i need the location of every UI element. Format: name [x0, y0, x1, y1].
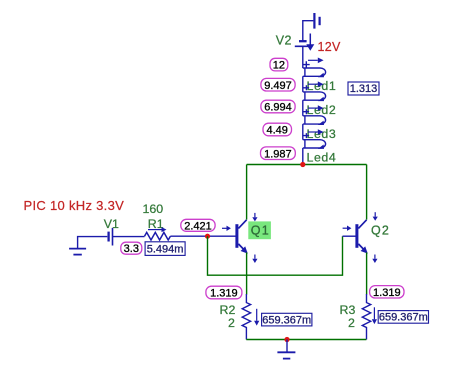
- ground top (rotated, at V2 plus terminal): [303, 13, 320, 41]
- svg-text:659.367m: 659.367m: [379, 312, 428, 324]
- svg-text:12: 12: [273, 60, 285, 72]
- R2 current arrow: [254, 309, 259, 326]
- voltage pin 9.497: [261, 78, 295, 91]
- svg-text:1.987: 1.987: [264, 148, 292, 160]
- voltage pin 1.987: [261, 147, 296, 160]
- svg-text:3.3: 3.3: [124, 243, 139, 255]
- svg-text:5.494m: 5.494m: [147, 244, 184, 256]
- Q2 collector arrow: [373, 212, 378, 221]
- svg-text:Led3: Led3: [307, 127, 337, 141]
- voltage pin 3.3: [121, 242, 142, 255]
- voltage pin 12: [270, 58, 288, 71]
- current box 1.313: [348, 82, 379, 95]
- svg-text:2: 2: [348, 316, 355, 330]
- svg-text:160: 160: [143, 202, 164, 216]
- svg-text:R2: R2: [220, 303, 236, 317]
- Q1 base current arrow: [222, 226, 231, 231]
- Q2 emitter arrow: [372, 255, 377, 264]
- node ground junction: [284, 337, 289, 342]
- Q1 label (highlighted): [248, 221, 271, 239]
- resistor R2: [220, 294, 251, 340]
- resistor R1: [143, 202, 171, 240]
- transistor Q2: [343, 220, 391, 254]
- svg-text:Led1: Led1: [307, 79, 337, 93]
- LED Led1: [303, 58, 336, 94]
- wire rail to Q2 collector: [366, 165, 368, 220]
- V2 voltage arrow: [306, 34, 314, 51]
- wire Q1 emitter to R2: [246, 252, 248, 294]
- node base Q1: [205, 234, 210, 239]
- wire base routing Q1 to Q2: [208, 236, 343, 275]
- svg-text:1.319: 1.319: [210, 288, 238, 300]
- wire R1 to Q1 base: [170, 235, 236, 237]
- svg-text:6.994: 6.994: [264, 102, 292, 114]
- wire Q2 emitter to R3: [366, 252, 368, 294]
- ground left (V1): [69, 237, 107, 255]
- svg-text:V2: V2: [276, 34, 292, 48]
- svg-text:Q2: Q2: [371, 224, 390, 238]
- wire V1 to R1: [113, 236, 145, 238]
- svg-text:659.367m: 659.367m: [262, 314, 311, 326]
- node junction LED chain / rail: [300, 162, 305, 167]
- svg-text:2.421: 2.421: [184, 220, 212, 232]
- LED Led2: [303, 81, 336, 117]
- voltage pin 1.319 right: [370, 286, 404, 299]
- battery V1: [104, 217, 119, 246]
- svg-text:2: 2: [228, 316, 235, 330]
- ground bottom: [277, 340, 295, 359]
- R1 current arrow: [148, 227, 167, 232]
- svg-text:9.497: 9.497: [264, 80, 292, 92]
- voltage pin 4.49: [263, 123, 292, 136]
- svg-text:R3: R3: [340, 303, 356, 317]
- voltage pin 2.421: [181, 219, 215, 232]
- R3 current arrow: [372, 307, 377, 324]
- LED Led3: [303, 105, 336, 141]
- svg-text:Q1: Q1: [251, 224, 270, 238]
- svg-text:1.313: 1.313: [350, 83, 378, 95]
- voltage pin 1.319 left: [206, 286, 242, 299]
- Q2 base current arrow: [343, 226, 352, 231]
- current box 659.367m left: [262, 313, 312, 326]
- svg-text:1.319: 1.319: [373, 287, 401, 299]
- Q1 emitter arrow: [252, 255, 257, 264]
- battery V2: [276, 34, 311, 68]
- svg-text:4.49: 4.49: [266, 125, 287, 137]
- wire top rail: [247, 164, 367, 166]
- svg-text:V1: V1: [104, 217, 119, 231]
- current box 659.367m right: [378, 311, 428, 324]
- svg-text:Led2: Led2: [307, 103, 337, 117]
- wire bottom rail: [246, 339, 366, 341]
- svg-text:PIC 10 kHz 3.3V: PIC 10 kHz 3.3V: [24, 198, 125, 213]
- Q1 collector arrow: [252, 213, 257, 222]
- svg-text:Led4: Led4: [307, 150, 337, 164]
- wire rail to Q1 collector: [246, 165, 248, 220]
- svg-text:12V: 12V: [318, 40, 342, 54]
- voltage pin 6.994: [261, 100, 295, 113]
- resistor R3: [340, 294, 371, 340]
- LED Led4: [303, 129, 336, 164]
- transistor Q1: [237, 220, 248, 254]
- current box 5.494m: [145, 242, 185, 256]
